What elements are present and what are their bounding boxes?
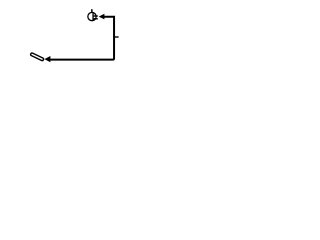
arrowhead A1 (points left at U1) [99,14,105,20]
stub branch on vertical wire [114,36,119,38]
wire: top horizontal, right vertical, bottom horizontal [50,17,114,60]
timer symbol U1 : upper right prong [94,15,98,16]
arrowhead A2 (points left at capsule) [44,56,50,62]
timer symbol U1 : outer circle [88,12,96,20]
timer symbol U1 : inner vertical bar [92,12,93,20]
timer symbol U1 : lower right prong [94,18,98,19]
background [0,0,150,74]
timer symbol U1 : top button tick [91,9,93,12]
capsule component (tilted rounded rect) [30,53,44,61]
